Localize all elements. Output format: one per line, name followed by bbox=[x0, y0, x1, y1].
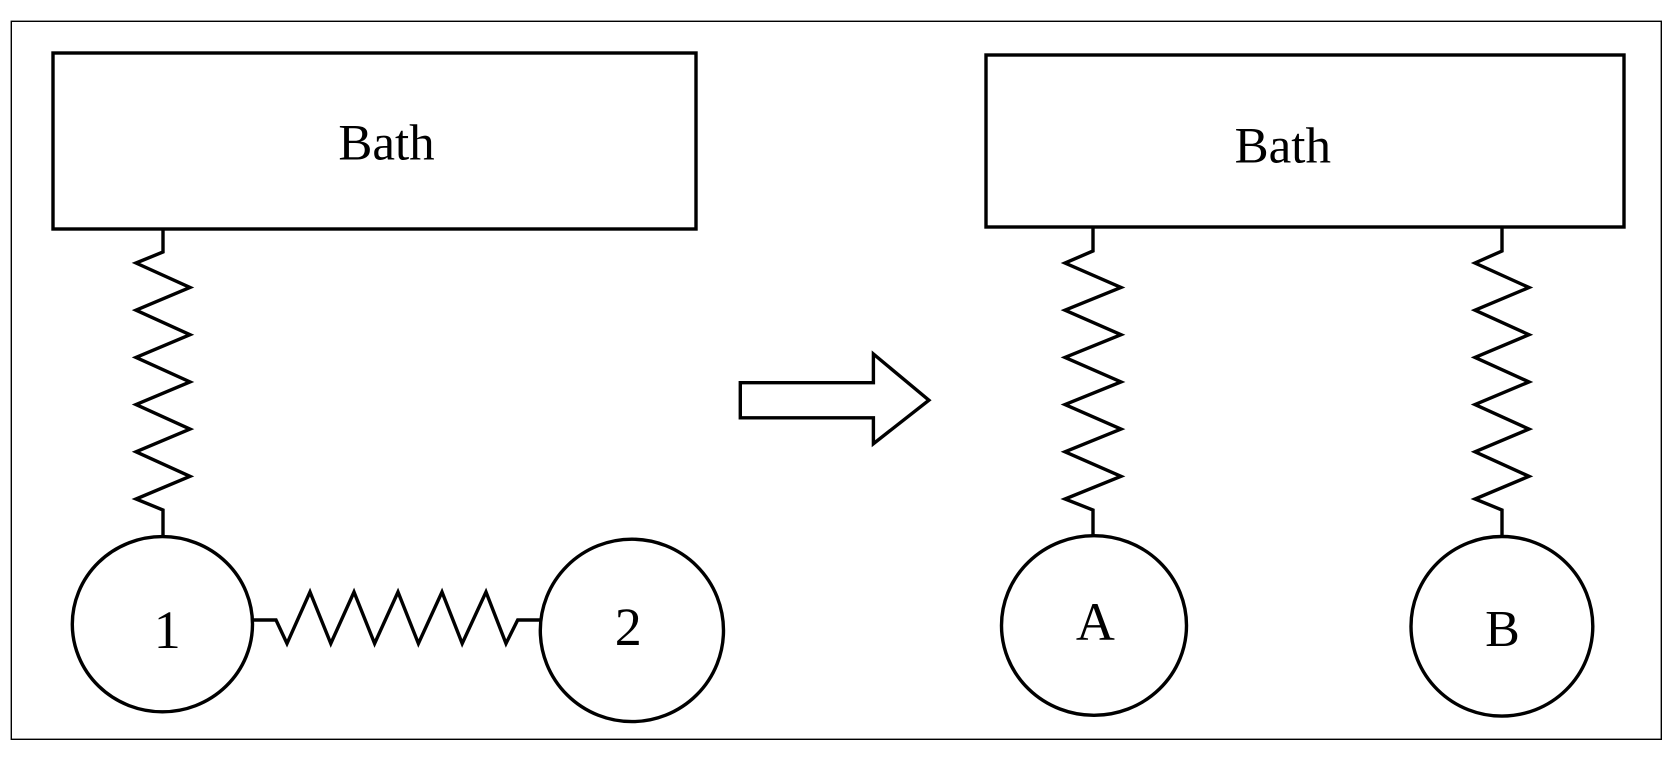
svg-text:1: 1 bbox=[154, 600, 181, 660]
label A bbox=[1076, 592, 1115, 652]
coupling spring k12 between mass 1 and mass 2 bbox=[253, 592, 541, 644]
arrow transformation bbox=[740, 354, 929, 444]
mass 2 circle bbox=[540, 539, 723, 721]
spring k1 from left bath to mass 1 bbox=[136, 229, 190, 535]
svg-text:Bath: Bath bbox=[338, 116, 434, 172]
bath box left bbox=[53, 53, 696, 229]
label 1 bbox=[154, 600, 181, 660]
spring kA from right bath to mass A bbox=[1065, 227, 1121, 535]
label Bath right bbox=[1235, 118, 1331, 174]
mass 1 circle bbox=[72, 537, 252, 712]
label 2 bbox=[615, 597, 642, 657]
spring kB from right bath to mass B bbox=[1475, 227, 1529, 535]
svg-text:2: 2 bbox=[615, 597, 642, 657]
label Bath left bbox=[338, 116, 434, 172]
mass A circle bbox=[1002, 536, 1187, 716]
svg-text:Bath: Bath bbox=[1235, 118, 1331, 174]
label B bbox=[1485, 601, 1520, 658]
svg-text:B: B bbox=[1485, 601, 1520, 658]
mass B circle bbox=[1411, 537, 1593, 717]
svg-text:A: A bbox=[1076, 592, 1115, 652]
bath box right bbox=[986, 55, 1624, 227]
